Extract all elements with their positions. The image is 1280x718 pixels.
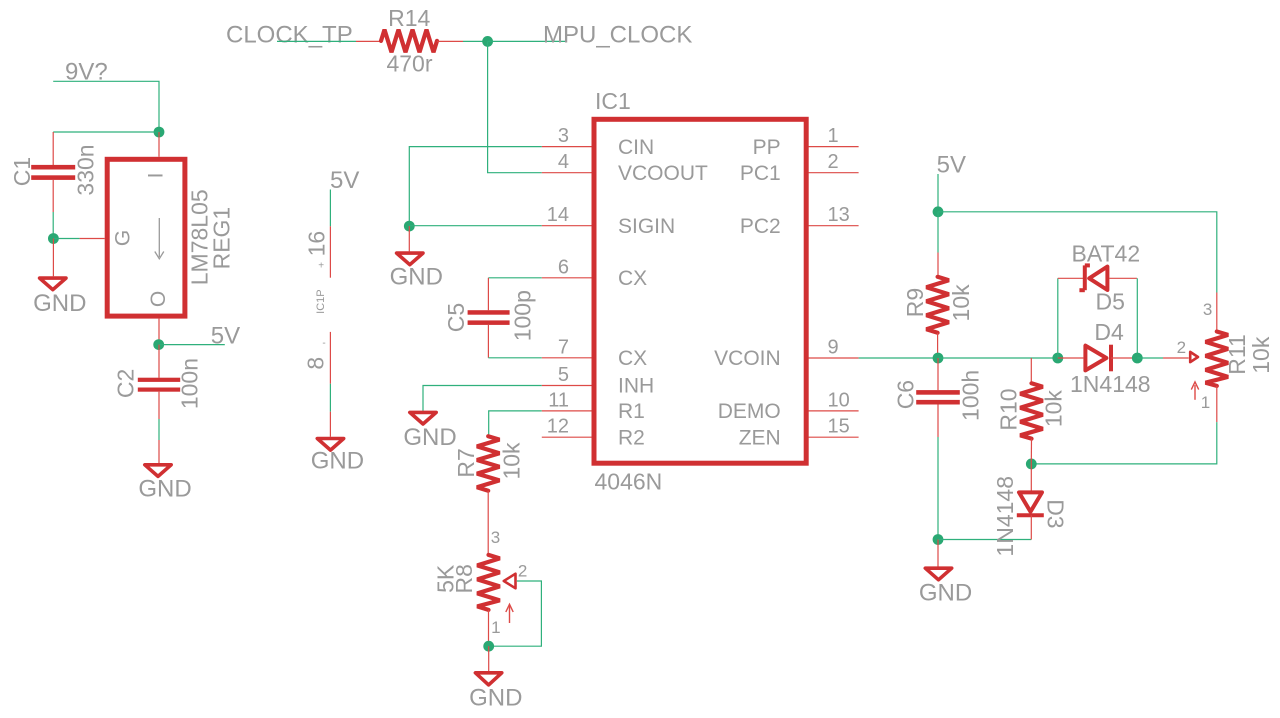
REG1 internal arrow <box>155 218 164 259</box>
wire C5 bottom to pin7 <box>488 325 541 358</box>
svg-text:-: - <box>322 338 325 349</box>
node junction C6/GND rail <box>933 534 944 545</box>
pin stub D4 anode <box>1058 357 1084 359</box>
svg-text:2: 2 <box>518 562 527 581</box>
svg-text:R2: R2 <box>618 426 645 449</box>
pin stub R9 top <box>937 253 939 277</box>
svg-text:D3: D3 <box>1043 499 1069 528</box>
wire R8 bottom <box>488 610 490 646</box>
svg-text:C1: C1 <box>9 157 35 186</box>
svg-text:100h: 100h <box>958 370 984 421</box>
svg-text:4: 4 <box>558 151 569 173</box>
svg-text:MPU_CLOCK: MPU_CLOCK <box>543 22 692 49</box>
svg-text:C6: C6 <box>893 380 919 409</box>
svg-text:5V: 5V <box>937 152 966 179</box>
wire to ground node <box>52 212 54 239</box>
svg-text:CX: CX <box>618 267 647 290</box>
pin stub R10 top <box>1030 358 1032 383</box>
svg-text:16: 16 <box>304 231 330 257</box>
svg-text:10: 10 <box>828 389 850 411</box>
pin stub 10 DEMO <box>809 410 859 412</box>
pin stub R14 left <box>356 40 381 42</box>
svg-text:G: G <box>112 230 135 246</box>
svg-text:VCOOUT: VCOOUT <box>618 162 708 185</box>
pin stub R11 top <box>1216 293 1218 332</box>
pin stub D3 bottom <box>1030 515 1032 539</box>
node junction R9/C6 <box>933 353 944 364</box>
pin stub 9 VCOIN <box>809 357 859 359</box>
wire R7 to R8 <box>487 491 489 555</box>
wire C1 bottom <box>52 180 54 212</box>
wire C6 bottom <box>937 405 939 540</box>
resistor body R10 <box>1020 383 1043 438</box>
pin stub 5 INH <box>542 385 592 387</box>
svg-text:330n: 330n <box>73 144 99 195</box>
pin stub 11 R1 <box>542 410 592 412</box>
pin stub 13 PC2 <box>809 225 859 227</box>
node junction D4/D5 right <box>1132 353 1143 364</box>
svg-text:1: 1 <box>828 125 839 147</box>
wire 9V net <box>53 81 159 132</box>
svg-text:3: 3 <box>558 125 569 147</box>
svg-text:CIN: CIN <box>618 136 654 159</box>
svg-text:ZEN: ZEN <box>739 426 781 449</box>
svg-text:+: + <box>318 261 324 272</box>
pin stub 4 VCOOUT <box>542 172 592 174</box>
svg-text:5: 5 <box>558 364 569 386</box>
R11 wiper arrow <box>1190 352 1198 362</box>
wire to C2 <box>158 345 160 378</box>
svg-text:10k: 10k <box>948 284 974 322</box>
svg-text:4046N: 4046N <box>595 468 663 494</box>
node junction 5V output <box>153 339 164 350</box>
capacitor C5 <box>468 310 510 325</box>
pin stub REG1 input <box>158 132 160 157</box>
svg-text:I: I <box>145 173 168 179</box>
capacitor C1 <box>31 165 75 180</box>
ground symbol (R8) <box>475 673 501 685</box>
svg-text:R8: R8 <box>451 564 477 593</box>
pin stub 2 PC1 <box>809 172 859 174</box>
wire MPU_CLOCK stub <box>488 40 567 42</box>
wire 5V rail to R11 top <box>938 212 1217 293</box>
ground symbol (C6) <box>925 568 951 580</box>
svg-text:11: 11 <box>548 389 569 411</box>
svg-text:100p: 100p <box>510 290 536 341</box>
pin stub D5 cathode <box>1058 277 1085 279</box>
svg-text:C5: C5 <box>443 303 469 332</box>
svg-text:13: 13 <box>828 204 850 226</box>
svg-text:R9: R9 <box>902 288 928 317</box>
wire VCOIN net <box>859 357 938 359</box>
wire CIN net <box>409 147 542 227</box>
svg-text:3: 3 <box>491 528 500 547</box>
wire pin stub C1 top <box>52 132 54 165</box>
pin stub R10 bottom <box>1030 439 1032 464</box>
resistor R7 <box>477 436 500 491</box>
svg-text:1N4148: 1N4148 <box>992 476 1018 557</box>
pin stub 15 ZEN <box>809 436 859 438</box>
wire R11 bottom to lower rail <box>1031 386 1217 464</box>
svg-text:5V: 5V <box>211 322 240 349</box>
ground symbol (SIGIN) <box>397 253 423 265</box>
R8 adjust arrow <box>506 604 513 623</box>
node junction SIGIN/GND <box>404 221 415 232</box>
node junction D4/D5 left <box>1052 353 1063 364</box>
wire CLOCK_TP <box>277 40 356 42</box>
svg-text:GND: GND <box>403 424 456 451</box>
svg-text:R10: R10 <box>996 388 1022 430</box>
svg-text:1: 1 <box>491 618 500 637</box>
capacitor C2 <box>138 378 180 392</box>
pin stub 12 R2 <box>542 436 592 438</box>
pin stub D5 anode <box>1109 277 1137 279</box>
wire 5V down <box>937 174 939 212</box>
wire from junction to C1 column <box>53 131 159 133</box>
wire junction to R9 <box>937 212 939 253</box>
wire CX pin6 to C5 <box>488 277 541 279</box>
svg-text:1N4148: 1N4148 <box>1070 371 1151 397</box>
pin stub 1 PP <box>809 146 859 148</box>
svg-text:3: 3 <box>1203 300 1212 319</box>
svg-text:DEMO: DEMO <box>718 400 781 423</box>
ground symbol (IC1P) <box>317 439 343 451</box>
svg-text:GND: GND <box>138 476 191 503</box>
wire D5 left branch <box>1057 278 1059 358</box>
svg-text:8: 8 <box>303 357 329 370</box>
wire 5V stub <box>159 344 225 346</box>
ground symbol (C1) <box>40 278 66 290</box>
svg-text:GND: GND <box>390 263 443 290</box>
pin stub REG1 G <box>80 238 105 240</box>
R11 adjust arrow <box>1191 382 1198 400</box>
pin stub REG1 output <box>158 319 160 345</box>
wire D5 right branch <box>1136 278 1138 358</box>
svg-text:O: O <box>147 291 170 307</box>
wire C2 bottom to ground <box>158 392 160 463</box>
wire R1 pin11 to R7 <box>489 411 542 436</box>
svg-text:470r: 470r <box>386 51 432 77</box>
svg-text:2: 2 <box>1177 338 1186 357</box>
svg-text:CLOCK_TP: CLOCK_TP <box>226 22 353 49</box>
svg-text:R7: R7 <box>453 448 479 477</box>
pin stub D4 cathode <box>1111 357 1137 359</box>
diode D4 (1N4148) <box>1085 345 1111 372</box>
wire VCOIN net continues <box>938 357 1058 359</box>
wire junction down to VCOOUT <box>488 41 542 172</box>
voltage regulator REG1 body <box>107 159 185 316</box>
svg-text:REG1: REG1 <box>209 207 235 270</box>
pin stub 8 <box>329 332 331 384</box>
pin stub 3 CIN <box>542 146 592 148</box>
svg-text:12: 12 <box>547 416 569 438</box>
svg-text:R11: R11 <box>1224 334 1250 375</box>
svg-text:INH: INH <box>618 375 654 398</box>
svg-text:GND: GND <box>311 448 364 475</box>
pin stub 16 <box>329 226 331 277</box>
diode D3 (1N4148) <box>1017 492 1044 515</box>
svg-text:VCOIN: VCOIN <box>714 347 781 370</box>
wire junction to ground <box>937 540 939 567</box>
node junction MPU_CLOCK <box>482 36 493 47</box>
wire ground rail to D3 <box>938 539 1031 541</box>
resistor R14 <box>381 30 437 53</box>
node junction C1/GND <box>48 233 59 244</box>
node junction R8/GND <box>483 641 494 652</box>
svg-text:PP: PP <box>753 136 781 159</box>
pin stub 6 CX <box>542 277 592 279</box>
svg-text:C2: C2 <box>113 369 139 398</box>
pin stub 7 CX <box>542 357 592 359</box>
svg-text:CX: CX <box>618 347 647 370</box>
pin stub C6 top <box>937 358 939 390</box>
wire INH net <box>423 386 542 411</box>
diode D5 (BAT42 schottky) <box>1079 265 1107 290</box>
pin stub R14 right <box>437 40 463 42</box>
svg-text:R14: R14 <box>388 5 430 31</box>
svg-text:PC1: PC1 <box>740 162 781 185</box>
node junction 5V rail <box>933 206 944 217</box>
pin stub D3 top <box>1030 464 1032 491</box>
svg-text:14: 14 <box>547 204 569 226</box>
svg-text:2: 2 <box>828 151 839 173</box>
ground symbol (INH) <box>410 412 436 424</box>
svg-text:BAT42: BAT42 <box>1072 241 1141 267</box>
svg-text:IC1: IC1 <box>595 88 631 114</box>
pin stub R9 bottom <box>937 333 939 358</box>
svg-text:GND: GND <box>33 290 86 317</box>
wire 8 to ground <box>329 384 331 412</box>
svg-text:7: 7 <box>558 336 569 358</box>
wire 5V to pin 16 <box>329 190 331 227</box>
node junction at REG1 input <box>154 127 165 138</box>
svg-text:PC2: PC2 <box>740 215 781 238</box>
wire to junction <box>463 40 488 42</box>
wire SIGIN <box>409 225 542 227</box>
pin stub 14 SIGIN <box>542 225 592 227</box>
wire to R11 wiper <box>1137 357 1163 359</box>
svg-text:10k: 10k <box>1248 336 1274 374</box>
node junction R10/D3 <box>1026 459 1037 470</box>
resistor R9 <box>926 277 949 333</box>
capacitor C6 <box>916 390 960 404</box>
resistor body R11 <box>1206 332 1229 386</box>
wire R8 wiper loop <box>494 581 541 646</box>
wire junction to ground <box>408 226 410 251</box>
potentiometer R8 <box>477 555 500 610</box>
wire junction to ground <box>488 646 490 671</box>
svg-text:D4: D4 <box>1094 319 1124 345</box>
ground symbol (C2) <box>145 465 171 477</box>
svg-text:R1: R1 <box>618 400 645 423</box>
svg-text:15: 15 <box>828 416 850 438</box>
svg-text:GND: GND <box>919 579 972 606</box>
svg-text:10k: 10k <box>1041 390 1067 428</box>
R8 wiper arrow <box>504 574 516 589</box>
svg-text:D5: D5 <box>1096 289 1125 315</box>
wire down to C5 <box>487 278 489 310</box>
svg-text:1: 1 <box>1201 393 1210 412</box>
wire junction to REG1 G pin <box>53 238 79 240</box>
svg-text:5V: 5V <box>330 167 359 194</box>
svg-text:9: 9 <box>828 336 839 358</box>
svg-text:IC1P: IC1P <box>315 289 327 313</box>
svg-text:6: 6 <box>558 256 569 278</box>
svg-text:100n: 100n <box>177 358 203 409</box>
wire junction down to ground <box>52 239 54 277</box>
svg-text:10k: 10k <box>499 442 525 480</box>
svg-text:SIGIN: SIGIN <box>618 215 675 238</box>
wire to ground symbol <box>329 412 331 437</box>
pin stub R11 wiper <box>1163 357 1189 359</box>
IC IC1 body <box>594 119 806 463</box>
svg-text:GND: GND <box>469 685 522 712</box>
